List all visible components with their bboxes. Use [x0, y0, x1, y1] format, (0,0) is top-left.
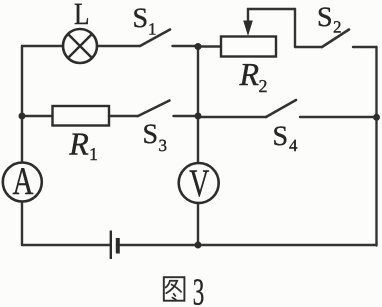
wire left rail to R1 [22, 115, 53, 117]
wire S3 contact to middle node [174, 115, 199, 117]
wire S2 left contact [295, 46, 322, 48]
battery short plate [116, 238, 120, 254]
label R2 [239, 56, 268, 96]
wire S2 left drop [294, 9, 296, 47]
wire middle rail upper segment [197, 46, 199, 163]
label S2 [317, 2, 342, 37]
wire bottom left to battery [22, 244, 110, 246]
wire S4 contact to right rail [300, 116, 377, 118]
wire middle rail lower segment [197, 203, 199, 245]
voltmeter V [179, 162, 219, 205]
svg-text:R: R [239, 56, 260, 92]
svg-text:4: 4 [289, 136, 298, 155]
label S3 [143, 119, 168, 155]
lamp L [63, 29, 97, 63]
switch S4 blade [266, 100, 296, 117]
label S4 [273, 121, 299, 155]
node junction left rail / R1 row [19, 113, 26, 120]
label R1 [68, 126, 98, 165]
svg-text:S: S [273, 121, 289, 152]
resistor R1 body [53, 106, 110, 126]
wire S1 contact to middle node [173, 45, 199, 47]
svg-text:R: R [68, 126, 89, 162]
wire left rail upper segment [21, 46, 23, 162]
wire left rail lower segment [21, 202, 23, 245]
battery long plate [110, 231, 112, 260]
svg-text:2: 2 [259, 76, 268, 96]
wire middle node to S4 hinge [198, 116, 266, 118]
svg-text:1: 1 [89, 144, 98, 164]
wire R1 to S3 hinge [109, 115, 138, 117]
ammeter A [3, 160, 42, 203]
svg-text:V: V [189, 162, 209, 205]
wire lamp to S1 hinge [97, 45, 140, 47]
svg-text:3: 3 [159, 136, 168, 155]
wire R2 wiper stem and top run [248, 9, 295, 22]
label S1 [133, 3, 157, 39]
wire battery to middle node [119, 244, 198, 246]
node junction middle rail / bottom wire [195, 242, 202, 249]
wire top-left corner to lamp [22, 45, 63, 47]
svg-text:S: S [143, 119, 159, 150]
wire node to R2 left terminal [198, 45, 221, 47]
svg-text:2: 2 [333, 18, 342, 37]
node junction middle rail / S4 row [195, 113, 202, 120]
switch S3 blade [138, 101, 170, 117]
caption character 图 drawn as strokes [164, 277, 185, 301]
wire bottom right run [198, 244, 377, 246]
switch S2 blade [322, 30, 349, 48]
svg-text:1: 1 [148, 20, 157, 39]
svg-text:3: 3 [193, 272, 205, 307]
svg-text:A: A [13, 160, 34, 203]
rheostat R2 wiper arrowhead [243, 21, 253, 37]
svg-text:S: S [317, 2, 333, 33]
wire S2 right contact [353, 46, 377, 48]
svg-text:S: S [133, 3, 149, 34]
svg-text:L: L [74, 0, 90, 31]
rheostat R2 body [221, 37, 276, 57]
wire right rail [375, 47, 377, 246]
node junction middle rail top [195, 43, 202, 50]
switch S1 blade [140, 30, 170, 47]
node junction right rail / S4 row [373, 114, 380, 121]
